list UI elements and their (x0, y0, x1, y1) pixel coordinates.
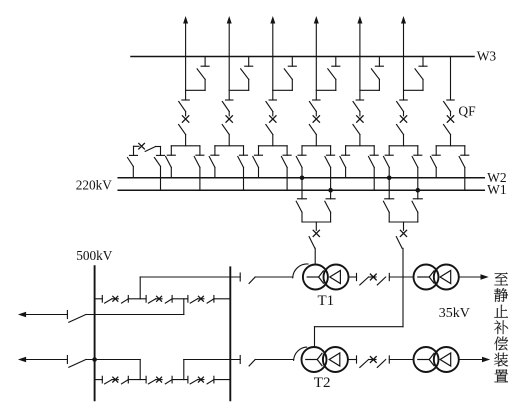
svg-text:35kV: 35kV (439, 306, 470, 321)
svg-text:W3: W3 (477, 48, 497, 63)
svg-text:T1: T1 (318, 293, 335, 309)
svg-text:QF: QF (458, 104, 476, 119)
svg-text:500kV: 500kV (76, 248, 113, 263)
svg-text:W1: W1 (487, 182, 507, 197)
svg-text:T2: T2 (314, 375, 331, 391)
svg-text:220kV: 220kV (76, 178, 113, 193)
